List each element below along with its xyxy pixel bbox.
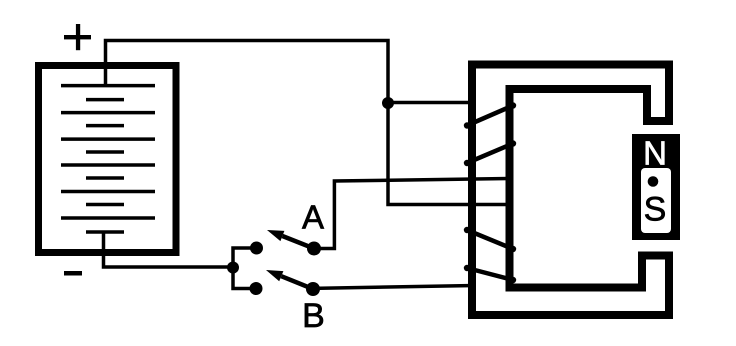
svg-text:B: B xyxy=(302,297,325,335)
svg-text:N: N xyxy=(643,135,667,172)
svg-text:S: S xyxy=(644,191,667,229)
svg-text:A: A xyxy=(302,199,324,236)
